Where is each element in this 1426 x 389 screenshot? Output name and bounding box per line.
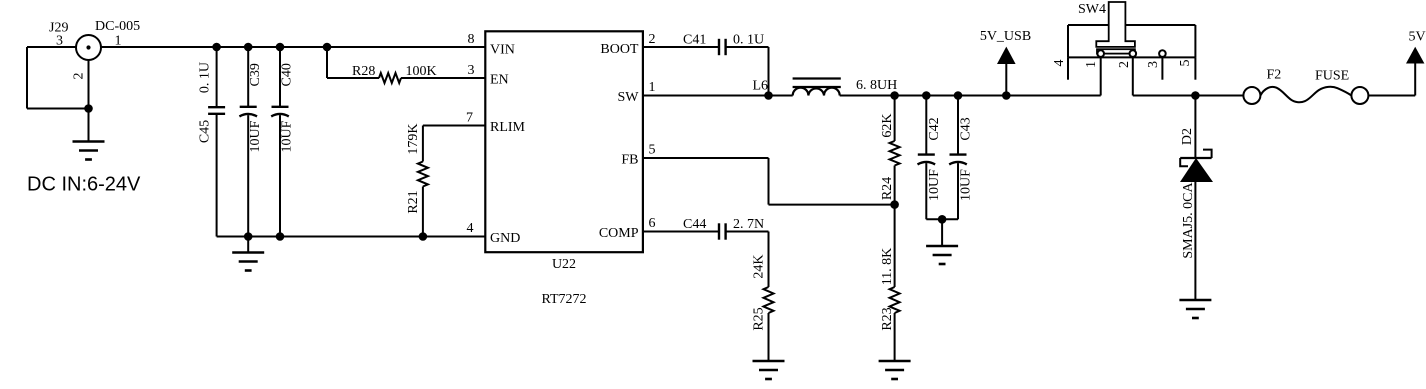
svg-text:FB: FB: [621, 152, 638, 167]
svg-text:10UF: 10UF: [280, 120, 295, 152]
svg-text:C43: C43: [959, 117, 974, 140]
svg-text:R23: R23: [880, 307, 895, 330]
svg-text:C41: C41: [683, 33, 706, 48]
svg-text:5V: 5V: [1409, 30, 1426, 45]
svg-text:1: 1: [1084, 61, 1099, 68]
svg-text:10UF: 10UF: [927, 169, 942, 201]
svg-text:DC IN:6-24V: DC IN:6-24V: [27, 173, 141, 195]
svg-text:SW4: SW4: [1078, 2, 1106, 17]
svg-text:24K: 24K: [752, 254, 767, 278]
svg-text:6. 8UH: 6. 8UH: [856, 78, 897, 93]
svg-text:C45: C45: [198, 120, 213, 143]
svg-text:2: 2: [649, 32, 656, 47]
svg-text:C44: C44: [683, 217, 706, 232]
svg-text:R24: R24: [880, 177, 895, 200]
svg-text:3: 3: [56, 34, 63, 49]
svg-text:FUSE: FUSE: [1315, 69, 1349, 84]
svg-text:3: 3: [1146, 61, 1161, 68]
svg-text:C42: C42: [927, 117, 942, 140]
svg-text:4: 4: [1052, 60, 1067, 67]
svg-text:5V_USB: 5V_USB: [980, 29, 1031, 44]
svg-text:1: 1: [649, 80, 656, 95]
svg-text:C40: C40: [280, 63, 295, 86]
svg-text:10UF: 10UF: [248, 120, 263, 152]
svg-text:7: 7: [466, 111, 473, 126]
svg-text:RT7272: RT7272: [541, 292, 586, 307]
svg-text:RLIM: RLIM: [490, 120, 526, 135]
svg-text:2: 2: [1117, 61, 1132, 68]
svg-text:0. 1U: 0. 1U: [733, 33, 764, 48]
svg-text:F2: F2: [1267, 68, 1282, 83]
svg-text:62K: 62K: [880, 113, 895, 137]
svg-text:3: 3: [468, 63, 475, 78]
svg-text:4: 4: [467, 221, 474, 236]
svg-text:VIN: VIN: [490, 42, 515, 57]
svg-text:6: 6: [649, 216, 656, 231]
svg-text:R28: R28: [352, 64, 375, 79]
svg-text:U22: U22: [552, 257, 576, 272]
svg-text:DC-005: DC-005: [95, 19, 140, 34]
svg-text:5: 5: [649, 143, 656, 158]
svg-text:2. 7N: 2. 7N: [733, 217, 764, 232]
svg-text:D2: D2: [1180, 128, 1195, 145]
svg-text:2: 2: [72, 73, 87, 80]
svg-text:100K: 100K: [406, 64, 437, 79]
svg-text:R21: R21: [406, 190, 421, 213]
svg-text:L6: L6: [753, 79, 769, 94]
svg-text:EN: EN: [490, 72, 509, 87]
svg-text:GND: GND: [490, 231, 520, 246]
svg-text:5: 5: [1178, 60, 1193, 67]
svg-text:10UF: 10UF: [959, 169, 974, 201]
svg-text:11. 8K: 11. 8K: [880, 248, 895, 286]
svg-text:SW: SW: [618, 90, 640, 105]
svg-text:8: 8: [468, 32, 475, 47]
svg-text:COMP: COMP: [599, 226, 639, 241]
svg-text:C39: C39: [248, 63, 263, 86]
svg-text:0. 1U: 0. 1U: [198, 62, 213, 93]
svg-text:R25: R25: [752, 307, 767, 330]
svg-text:1: 1: [115, 34, 122, 49]
svg-text:179K: 179K: [406, 123, 421, 154]
svg-text:SMAJ5. 0CA: SMAJ5. 0CA: [1181, 181, 1196, 258]
svg-text:BOOT: BOOT: [600, 42, 639, 57]
